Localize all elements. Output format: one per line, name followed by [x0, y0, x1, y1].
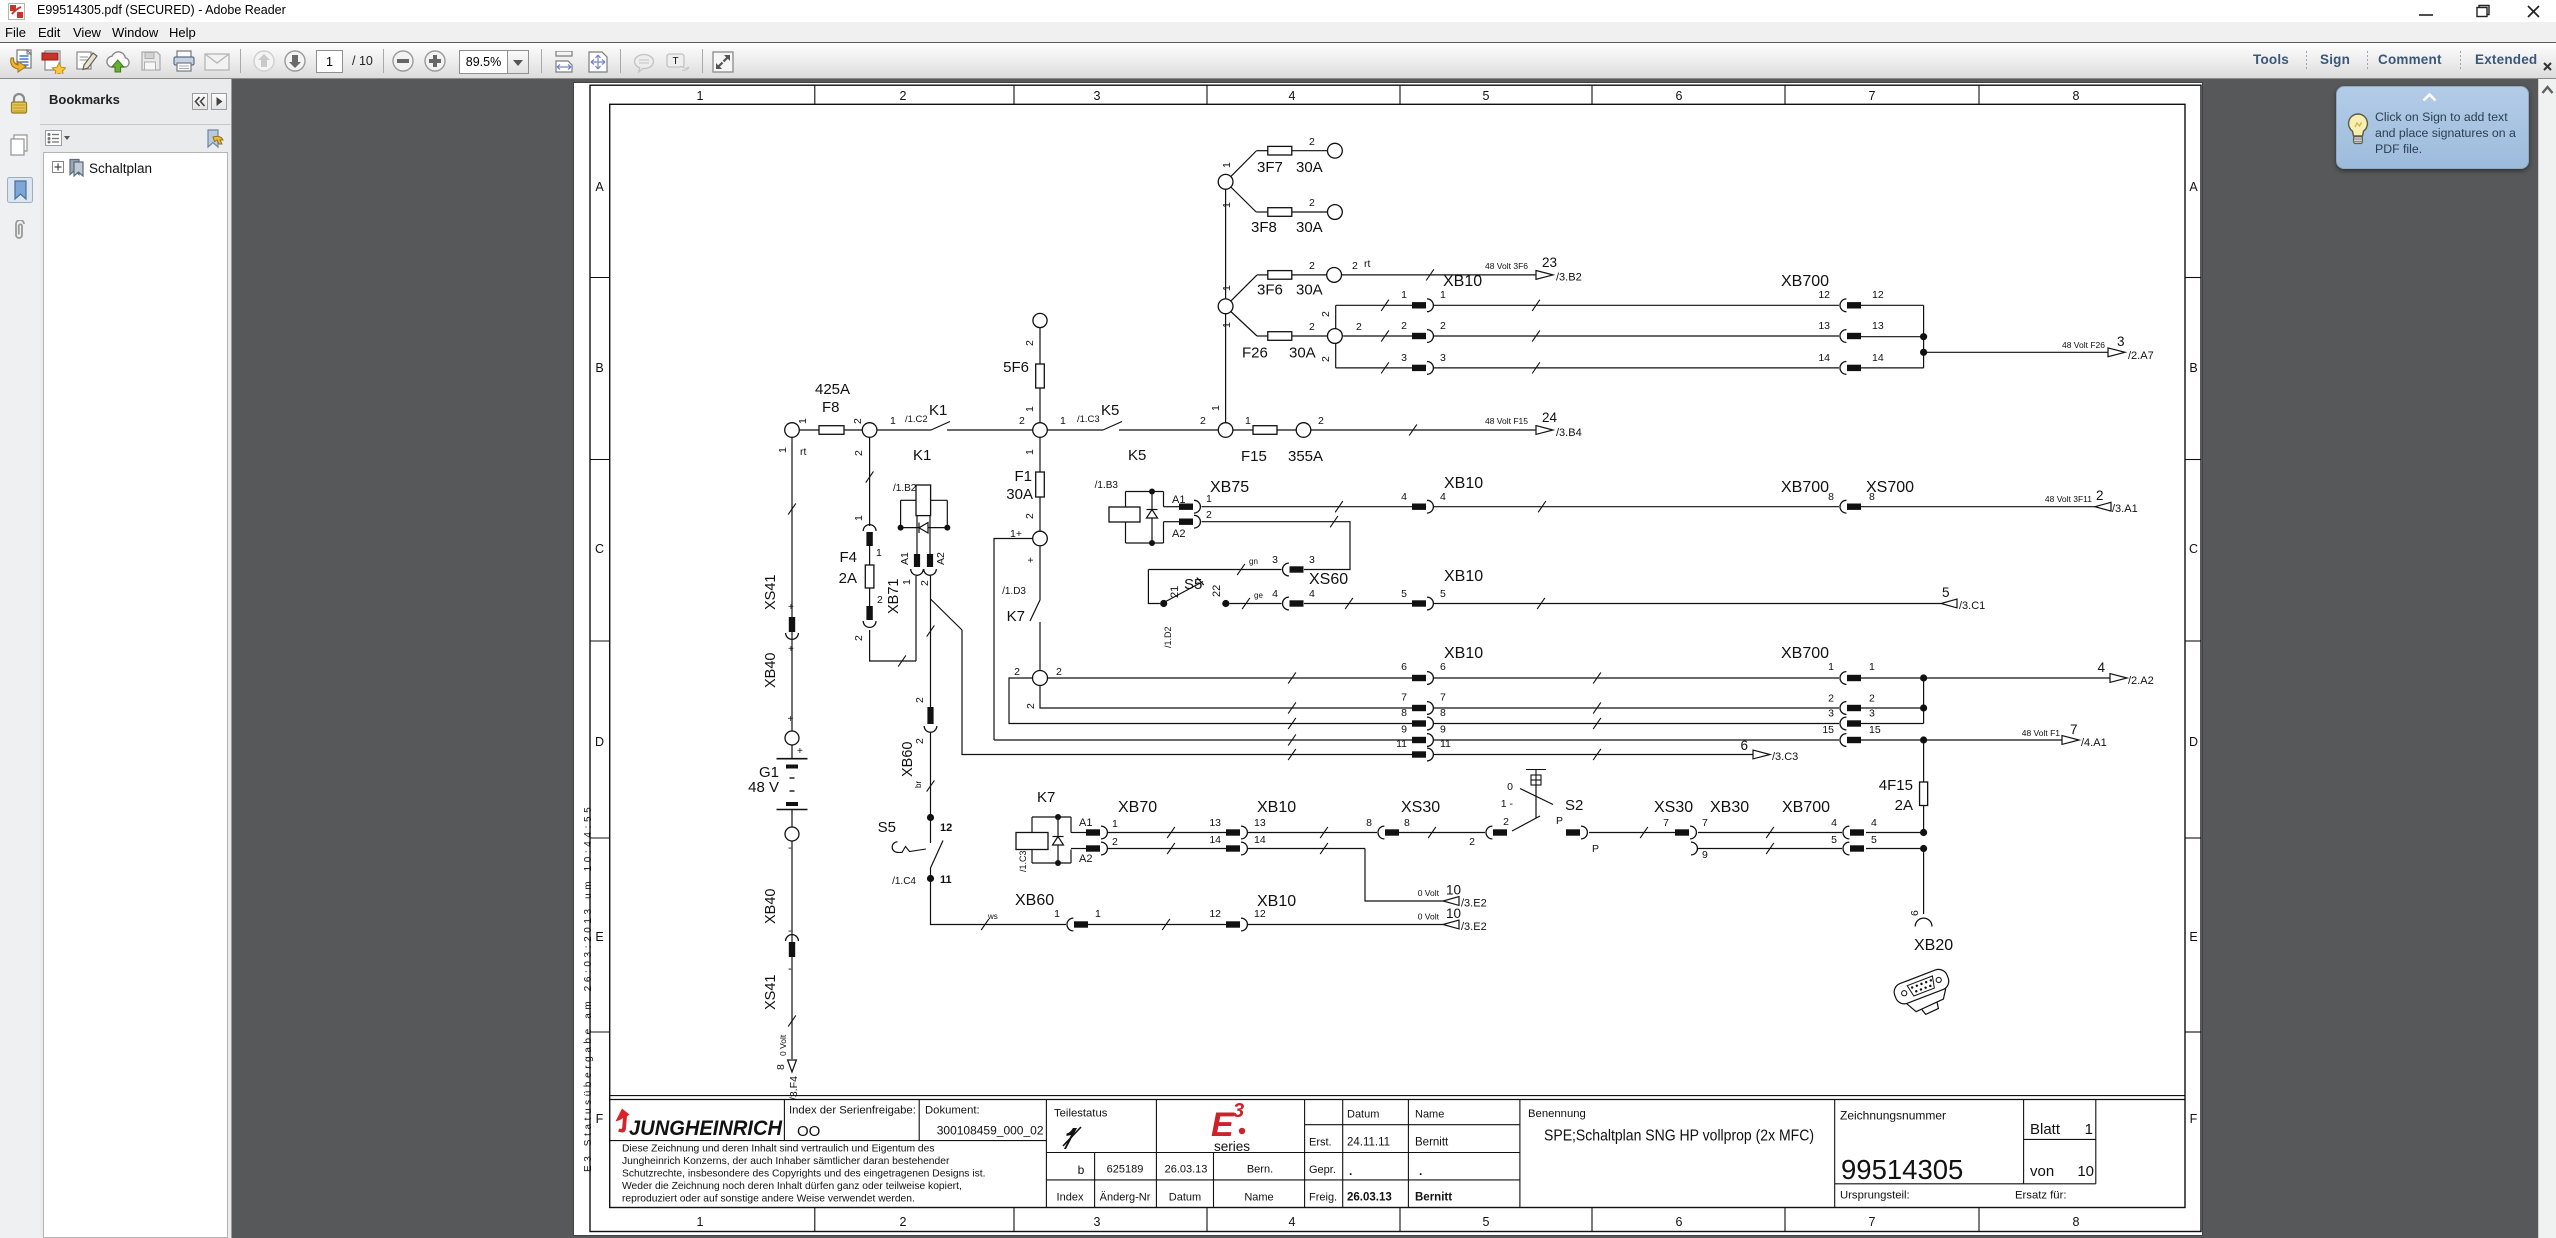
svg-text:Teilestatus: Teilestatus	[1054, 1108, 1108, 1120]
svg-text:7: 7	[1869, 89, 1876, 103]
svg-text:6: 6	[1676, 1215, 1683, 1229]
svg-text:0 Volt: 0 Volt	[1418, 888, 1440, 898]
connector XB700 rows 1-15	[1781, 645, 1881, 746]
connector XB75 pins	[1164, 479, 1250, 540]
sheet ref arrow /3.F4	[788, 1060, 800, 1100]
svg-text:0: 0	[1507, 781, 1513, 793]
svg-text:1: 1	[1024, 406, 1036, 412]
svg-text:2: 2	[1309, 321, 1315, 333]
svg-text:Bern.: Bern.	[1247, 1164, 1273, 1176]
contact K7 /1.D3	[1002, 546, 1040, 709]
approval table	[1309, 1109, 1452, 1204]
wire XB75-2 to XS60-3	[1202, 516, 1351, 569]
svg-text:1: 1	[1869, 661, 1875, 673]
terminal F26	[1328, 329, 1343, 344]
svg-text:T: T	[672, 56, 678, 67]
svg-text:Index der Serienfreigabe:: Index der Serienfreigabe:	[789, 1105, 916, 1117]
svg-text:/2.A2: /2.A2	[2128, 675, 2154, 687]
svg-text:12: 12	[1209, 908, 1221, 920]
svg-text:8: 8	[1366, 817, 1372, 829]
wire row8 loop	[1009, 678, 1412, 729]
relay coil K5 with diode	[1095, 447, 1164, 546]
svg-text:XB60: XB60	[1015, 892, 1054, 909]
svg-text:30A: 30A	[1296, 219, 1323, 236]
svg-text:K7: K7	[1007, 608, 1025, 625]
svg-text:14: 14	[1818, 352, 1830, 364]
svg-text:99514305: 99514305	[1841, 1154, 1963, 1185]
wire 4 /2.A2	[1924, 677, 2110, 679]
svg-text:5: 5	[1831, 834, 1837, 846]
wire S5 to XS60-4	[1229, 591, 1281, 609]
row letters right	[2189, 180, 2198, 1126]
wire row6	[1048, 672, 1413, 683]
E3 series logo	[1211, 1100, 1250, 1154]
svg-text:XB10: XB10	[1257, 799, 1296, 816]
wire XS60-4 to XB10-5	[1304, 598, 1412, 609]
connector XB10 rows 6-11	[1396, 645, 1483, 761]
fuse F1 30A	[1006, 437, 1044, 531]
confidentiality notice	[622, 1144, 985, 1205]
svg-text:12: 12	[1254, 908, 1266, 920]
svg-text:48 Volt F15: 48 Volt F15	[1485, 416, 1528, 426]
svg-text:2: 2	[1309, 260, 1315, 272]
svg-text:/3.C3: /3.C3	[1772, 751, 1798, 763]
svg-text:Datum: Datum	[1347, 1109, 1379, 1121]
svg-text:1: 1	[1401, 289, 1407, 301]
wire XB75-1 to XB10-4	[1202, 501, 1413, 512]
node F15	[1218, 415, 1251, 437]
svg-text:5: 5	[1483, 89, 1490, 103]
svg-text:/1.D2: /1.D2	[1163, 626, 1173, 648]
svg-text:XB20: XB20	[1914, 937, 1953, 954]
connector XB70 pins	[1071, 799, 1157, 865]
fuse F4 2A	[839, 546, 883, 606]
svg-text:2: 2	[1356, 321, 1362, 333]
svg-text:/3.B2: /3.B2	[1556, 272, 1582, 284]
svg-text:6: 6	[1401, 661, 1407, 673]
relay coil K7 with diode	[1016, 789, 1071, 872]
svg-text:2: 2	[852, 418, 864, 424]
sheet ref 3 /2.A7	[2108, 334, 2154, 362]
wire S2 to XS30-7	[1589, 827, 1675, 838]
svg-text:/1.C2: /1.C2	[905, 414, 928, 425]
connector XB60-2	[900, 697, 937, 777]
svg-text:13: 13	[1209, 817, 1221, 829]
svg-text:3: 3	[1828, 708, 1834, 720]
svg-text:2: 2	[1401, 320, 1407, 332]
svg-text:Bernitt: Bernitt	[1415, 1137, 1449, 1149]
terminal 3F6	[1327, 268, 1342, 283]
fuse F8 425A	[815, 381, 864, 434]
svg-text:/3.E2: /3.E2	[1461, 898, 1487, 910]
wire A2 down to XB60-2	[927, 576, 935, 707]
wire XS30-7 to XB700-4	[1698, 827, 1842, 838]
svg-text:9: 9	[1440, 724, 1446, 736]
connector XB10 rows 1-3	[1401, 273, 1482, 374]
svg-text:Datum: Datum	[1169, 1192, 1201, 1204]
svg-text:1: 1	[1206, 493, 1212, 505]
svg-text:ws: ws	[987, 912, 998, 921]
svg-text:11: 11	[1396, 738, 1407, 750]
wire F8 to node K1	[844, 429, 862, 431]
svg-text:7: 7	[1440, 692, 1446, 704]
svg-text:Weder die Zeichnung noch deren: Weder die Zeichnung noch deren Inhalt dü…	[622, 1181, 962, 1192]
wire XB10-14 corner	[1248, 843, 1443, 901]
svg-text:9: 9	[1401, 724, 1407, 736]
svg-text:Diese Zeichnung und deren Inha: Diese Zeichnung und deren Inhalt sind ve…	[622, 1144, 935, 1155]
svg-text:7: 7	[2070, 722, 2078, 737]
wire XS60-3 left	[1148, 557, 1281, 604]
svg-text:B: B	[2189, 361, 2197, 375]
svg-text:3: 3	[1440, 352, 1446, 364]
svg-text:8: 8	[2073, 89, 2080, 103]
svg-text:7: 7	[1663, 817, 1669, 829]
svg-text:1: 1	[1221, 162, 1233, 168]
column ruler ticks top	[815, 85, 1979, 104]
svg-text:XB10: XB10	[1443, 273, 1482, 290]
svg-text:6: 6	[1440, 661, 1446, 673]
blatt cell	[2030, 1121, 2094, 1180]
wire XB10-13 to XS30-8	[1248, 827, 1377, 838]
svg-text:C: C	[2189, 542, 2198, 556]
svg-text:XB700: XB700	[1781, 645, 1829, 662]
svg-text:JUNGHEINRICH: JUNGHEINRICH	[629, 1116, 782, 1140]
connector XB20 pin6	[1915, 918, 1932, 926]
svg-text:.: .	[1419, 1164, 1422, 1178]
svg-text:2A: 2A	[839, 570, 857, 587]
svg-text:F1: F1	[1014, 468, 1032, 485]
svg-text:2: 2	[1200, 415, 1206, 427]
svg-text:F: F	[596, 1112, 604, 1126]
svg-text:XB700: XB700	[1781, 273, 1829, 290]
sheet ref 24 /3.B4	[1536, 410, 1582, 439]
svg-text:1: 1	[890, 415, 896, 427]
connector XB10-5	[1401, 568, 1483, 610]
wire rows to XB700 top	[1434, 300, 1839, 374]
svg-text:/1.C3: /1.C3	[1077, 414, 1100, 425]
wire row7	[1040, 686, 1412, 714]
svg-text:30A: 30A	[1289, 345, 1316, 362]
svg-text:26.03.13: 26.03.13	[1165, 1164, 1208, 1176]
svg-text:F4: F4	[839, 549, 857, 566]
wire row9 15	[994, 734, 1412, 745]
svg-text:series: series	[1214, 1139, 1250, 1154]
svg-text:P: P	[1556, 815, 1563, 827]
svg-text:48 V: 48 V	[748, 779, 779, 796]
svg-text:2: 2	[2096, 488, 2104, 503]
wire branch to row11	[931, 599, 963, 630]
svg-text:0 Volt: 0 Volt	[778, 1034, 788, 1056]
svg-text:1: 1	[1060, 415, 1066, 427]
svg-text:Freig.: Freig.	[1309, 1192, 1337, 1204]
svg-text:3: 3	[1309, 554, 1315, 566]
wire 1+ branch	[994, 539, 1033, 741]
svg-text:7: 7	[1869, 1215, 1876, 1229]
svg-text:XB700: XB700	[1782, 799, 1830, 816]
relay coil K1 with diode	[893, 447, 950, 554]
svg-text:XB75: XB75	[1210, 479, 1249, 496]
svg-text:3: 3	[1401, 352, 1407, 364]
margin plot-stamp text	[583, 804, 594, 1172]
connector XB700-XS700 pin8	[1781, 479, 1914, 513]
wire XB60-1 to XB10-12	[1088, 919, 1226, 930]
switch S5 contact 21-22	[1160, 576, 1229, 648]
svg-text:SPE;Schaltplan SNG HP vollprop: SPE;Schaltplan SNG HP vollprop (2x MFC)	[1544, 1128, 1814, 1145]
svg-text:4: 4	[1831, 817, 1837, 829]
svg-text:15: 15	[1822, 724, 1834, 736]
svg-text:rt: rt	[800, 446, 806, 458]
svg-text:7: 7	[1401, 692, 1407, 704]
wire 48V 3F11	[1861, 494, 2095, 507]
svg-text:XS41: XS41	[763, 975, 779, 1010]
svg-text:3: 3	[1094, 89, 1101, 103]
svg-text:/1.D3: /1.D3	[1002, 586, 1026, 597]
svg-text:/2.A7: /2.A7	[2128, 350, 2154, 362]
svg-text:6: 6	[1676, 89, 1683, 103]
node G1 plus	[785, 731, 799, 745]
terminal F15	[1296, 423, 1311, 438]
fuse 5F6	[1003, 328, 1044, 423]
svg-text:Ursprungsteil:: Ursprungsteil:	[1840, 1190, 1910, 1202]
svg-text:2: 2	[1320, 356, 1332, 362]
svg-text:1: 1	[1245, 415, 1251, 427]
node F8-K1	[862, 423, 877, 438]
svg-text:1: 1	[1112, 818, 1118, 830]
svg-text:6: 6	[1740, 738, 1748, 753]
wire XB10-12 to ref	[1248, 924, 1443, 926]
svg-text:3F6: 3F6	[1257, 282, 1283, 299]
sheet ref 6 /3.C3	[1740, 738, 1798, 763]
svg-text:13: 13	[1872, 320, 1884, 332]
wire battery branch vertical	[777, 437, 806, 731]
wire F26 bus	[1320, 300, 1412, 374]
svg-text:2: 2	[877, 594, 883, 606]
svg-text:3: 3	[1272, 554, 1278, 566]
svg-text:P: P	[1592, 843, 1599, 855]
svg-text:48 Volt 3F6: 48 Volt 3F6	[1485, 261, 1528, 271]
svg-text:A: A	[2189, 180, 2198, 194]
fuse 3F7 30A	[1221, 136, 1328, 177]
sheet ref 0Volt 10 /3.E2 lower	[1418, 906, 1487, 933]
svg-text:1: 1	[777, 447, 789, 453]
connector XS60-4	[1272, 571, 1348, 610]
svg-text:2: 2	[1440, 320, 1446, 332]
svg-text:14: 14	[1254, 834, 1266, 846]
svg-text:XB700: XB700	[1781, 479, 1829, 496]
svg-text:4F15: 4F15	[1879, 777, 1913, 794]
wire A1 to XB10-13	[1108, 827, 1226, 838]
svg-text:/4.A1: /4.A1	[2081, 737, 2107, 749]
svg-text:1: 1	[876, 547, 882, 559]
revision table	[1057, 1163, 1274, 1204]
svg-text:1: 1	[1095, 908, 1101, 920]
svg-text:425A: 425A	[815, 381, 850, 398]
svg-text:2: 2	[1056, 666, 1062, 678]
connector XB71-1 upper	[853, 515, 876, 546]
svg-text:13: 13	[1254, 817, 1266, 829]
svg-text:XB40: XB40	[763, 653, 779, 688]
svg-text:Gepr.: Gepr.	[1309, 1164, 1336, 1176]
wire battery plus to F8	[797, 418, 819, 430]
svg-text:5: 5	[1401, 588, 1407, 600]
svg-text:XS60: XS60	[1309, 571, 1348, 588]
terminal 3F7	[1328, 143, 1343, 158]
svg-text:3: 3	[1869, 708, 1875, 720]
svg-text:8: 8	[1440, 707, 1446, 719]
connector XS60-3	[1272, 554, 1315, 576]
svg-text:/3.B4: /3.B4	[1556, 427, 1582, 439]
svg-text:br: br	[914, 781, 923, 788]
teilestatus cell	[1054, 1108, 1108, 1150]
column ruler ticks bottom	[815, 1208, 1979, 1232]
svg-text:A1: A1	[899, 552, 911, 565]
svg-text:4: 4	[1289, 1215, 1296, 1229]
page frame outer border	[590, 85, 2201, 1231]
svg-text:F8: F8	[822, 399, 840, 416]
svg-text:4: 4	[1289, 89, 1296, 103]
connector XB10-12	[1209, 893, 1296, 931]
svg-text:Name: Name	[1415, 1109, 1444, 1121]
wire S5 to XB60-1	[931, 882, 1067, 930]
svg-text:12: 12	[940, 822, 952, 834]
wire XB30-9 to XB700-5	[1698, 843, 1842, 854]
zeichnungsnummer cell	[1840, 1109, 2066, 1202]
connector XB10-13 14	[1209, 799, 1296, 855]
svg-text:1: 1	[697, 89, 704, 103]
svg-text:Benennung: Benennung	[1528, 1108, 1586, 1120]
svg-text:2: 2	[1469, 836, 1475, 848]
svg-text:30A: 30A	[1296, 282, 1323, 299]
svg-text:K5: K5	[1128, 447, 1146, 464]
svg-text:A2: A2	[935, 552, 947, 565]
svg-text:3: 3	[2117, 334, 2125, 349]
svg-text:13: 13	[1818, 320, 1830, 332]
svg-text:/3.A1: /3.A1	[2112, 503, 2138, 515]
svg-text:K1: K1	[913, 447, 931, 464]
svg-text:10: 10	[1446, 883, 1461, 898]
svg-text:2: 2	[1352, 260, 1358, 272]
svg-text:E: E	[2189, 930, 2197, 944]
Jungheinrich logo	[616, 1109, 783, 1141]
svg-text:C: C	[595, 542, 604, 556]
wire bus to ref 3	[1861, 305, 2108, 368]
sheet ref 5 /3.C1	[1941, 585, 1985, 612]
wire XB10-5 to ref	[1434, 598, 1941, 609]
svg-text:2: 2	[900, 1215, 907, 1229]
svg-text:2: 2	[1320, 311, 1332, 317]
fuse F26 30A	[1221, 312, 1328, 362]
svg-text:48 Volt F26: 48 Volt F26	[2062, 340, 2105, 350]
svg-text:Ersatz für:: Ersatz für:	[2015, 1190, 2066, 1202]
svg-text:11: 11	[940, 874, 952, 886]
svg-text:XB10: XB10	[1444, 475, 1483, 492]
svg-text:rt: rt	[1364, 258, 1370, 270]
wire node to XB71	[853, 437, 873, 526]
sheet ref 0Volt 10 /3.E2 upper	[1418, 883, 1487, 910]
svg-text:K1: K1	[929, 402, 947, 419]
svg-text:4: 4	[1871, 817, 1877, 829]
svg-text:/3.E2: /3.E2	[1461, 921, 1487, 933]
svg-text:5: 5	[1871, 834, 1877, 846]
svg-text:4: 4	[1309, 588, 1315, 600]
svg-text:-: -	[788, 842, 792, 854]
svg-text:1: 1	[1221, 322, 1233, 328]
connector XB71 A1 A2 pins	[899, 552, 947, 586]
svg-text:26.03.13: 26.03.13	[1347, 1192, 1392, 1204]
svg-text:+: +	[1026, 557, 1037, 563]
svg-text:XB10: XB10	[1444, 645, 1483, 662]
svg-text:14: 14	[1209, 834, 1221, 846]
svg-text:22: 22	[1211, 585, 1223, 597]
svg-text:2: 2	[853, 635, 865, 641]
svg-text:XB71: XB71	[886, 579, 902, 614]
svg-text:23: 23	[1542, 255, 1557, 270]
svg-text:8: 8	[1828, 491, 1834, 503]
svg-text:-: -	[788, 963, 792, 975]
connector XB700-4 5	[1782, 799, 1877, 855]
svg-text:300108459_000_02: 300108459_000_02	[937, 1124, 1044, 1138]
svg-text:XB40: XB40	[763, 889, 779, 924]
column numbers top	[697, 89, 2080, 103]
svg-text:XB60: XB60	[900, 742, 916, 777]
svg-text:1: 1	[1221, 285, 1233, 291]
svg-text:2: 2	[1309, 197, 1315, 209]
svg-text:10: 10	[1446, 906, 1461, 921]
battery G1 48V	[748, 745, 807, 827]
svg-text:8: 8	[1869, 491, 1875, 503]
svg-text:2: 2	[1828, 693, 1834, 705]
connector XB10-4	[1401, 475, 1483, 513]
svg-text:8: 8	[1401, 707, 1407, 719]
svg-text:5: 5	[1483, 1215, 1490, 1229]
svg-text:4: 4	[1440, 491, 1446, 503]
svg-text:0 Volt: 0 Volt	[1418, 912, 1440, 922]
svg-text:24.11.11: 24.11.11	[1347, 1137, 1390, 1149]
svg-text:1: 1	[1440, 289, 1446, 301]
svg-text:OO: OO	[797, 1123, 820, 1140]
connector XB40-XS41 minus	[763, 935, 798, 1027]
wire XB10-4 to XB700-8	[1434, 501, 1839, 512]
sheet ref 4 /2.A2	[2097, 660, 2153, 687]
svg-text:Zeichnungsnummer: Zeichnungsnummer	[1840, 1109, 1946, 1123]
svg-text:Schutzrechte, insbesondere des: Schutzrechte, insbesondere des Copyright…	[622, 1169, 985, 1180]
svg-text:2: 2	[919, 580, 931, 586]
svg-text:1: 1	[697, 1215, 704, 1229]
svg-text:B: B	[595, 361, 603, 375]
svg-text:+: +	[788, 644, 794, 655]
svg-text:10: 10	[2077, 1163, 2094, 1180]
wire F4 loop to XB71 pin1	[870, 576, 916, 667]
wire 48V 3F6	[1342, 258, 1537, 281]
connector XB60-1	[1015, 892, 1101, 931]
node 3F7-3F8	[1218, 174, 1233, 189]
svg-text:A1: A1	[1079, 817, 1092, 829]
svg-text:1: 1	[1828, 661, 1834, 673]
svg-text:2: 2	[1024, 513, 1036, 519]
svg-text:48 Volt F1: 48 Volt F1	[2022, 728, 2061, 738]
row ruler ticks right	[2185, 278, 2201, 1033]
fuse 3F8 30A	[1221, 187, 1328, 236]
svg-text:1: 1	[2085, 1121, 2093, 1138]
node F1 top	[1033, 415, 1066, 437]
wire 4F15 to XB20	[1909, 849, 1924, 917]
svg-text:2: 2	[1112, 836, 1118, 848]
svg-text:b: b	[1078, 1163, 1085, 1177]
svg-text:K7: K7	[1037, 789, 1055, 806]
wire XB700 to 4F15 bus	[1866, 829, 1927, 852]
wire 0Volt to /3.F4	[775, 1034, 788, 1070]
svg-text:/1.B2: /1.B2	[893, 483, 917, 494]
